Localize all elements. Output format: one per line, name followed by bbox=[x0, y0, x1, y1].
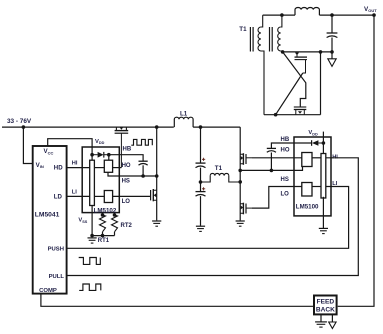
wire input rail bbox=[2, 126, 174, 128]
ground feedback bbox=[315, 322, 327, 327]
pin label PULL bbox=[49, 274, 65, 280]
capacitor C3 (+) bbox=[196, 187, 206, 196]
wire sgnd stub output bbox=[331, 52, 333, 59]
wire VIN drop bbox=[23, 127, 32, 163]
gate driver box high (LM5102) bbox=[104, 160, 112, 172]
wire high driver to level-shift bbox=[312, 157, 321, 159]
wire level-shift to high driver bbox=[94, 167, 104, 169]
wire cathode to driver bbox=[108, 155, 110, 161]
node sync right top bbox=[319, 50, 323, 54]
node buck output junction bbox=[199, 125, 203, 129]
node winding B top bbox=[280, 13, 284, 17]
svg-text:HB: HB bbox=[123, 147, 132, 153]
pin label HS (LM5102) bbox=[122, 179, 130, 185]
controller U1 LM5041 box bbox=[33, 146, 67, 294]
node RT2 top bbox=[113, 213, 117, 217]
node winding B bottom bbox=[281, 50, 285, 54]
svg-text:RT2: RT2 bbox=[121, 223, 133, 229]
inductor L2 output bbox=[295, 7, 319, 15]
pin label LD bbox=[54, 193, 63, 200]
transformer T1 primary winding bbox=[201, 165, 241, 182]
wire VCC to VDD bus bbox=[48, 139, 92, 161]
svg-text:HO: HO bbox=[122, 163, 131, 169]
gate driver box low (LM5100) bbox=[302, 183, 312, 197]
svg-text:LM5102: LM5102 bbox=[94, 207, 117, 214]
ground cap column bbox=[196, 226, 205, 231]
node HS switch bbox=[155, 174, 159, 178]
net label LI bbox=[72, 189, 77, 195]
svg-text:LO: LO bbox=[122, 199, 131, 205]
svg-text:LO: LO bbox=[281, 192, 290, 198]
wire cross-couple B bbox=[276, 73, 303, 115]
driver U2 LM5102 box bbox=[82, 147, 119, 213]
secondary winding A bbox=[258, 15, 264, 115]
wire LM5100 ground stub bbox=[322, 197, 324, 228]
wire output cap lower bbox=[331, 38, 333, 52]
part name LM5041 bbox=[35, 212, 60, 219]
net label LI (LM5100) bbox=[332, 181, 337, 187]
node RT1 bottom bbox=[101, 234, 105, 238]
svg-text:T1: T1 bbox=[239, 26, 247, 33]
svg-text:COMP: COMP bbox=[39, 288, 57, 294]
svg-text:HI: HI bbox=[72, 161, 78, 167]
transformer core bars right bbox=[270, 27, 273, 52]
svg-text:PUSH: PUSH bbox=[48, 246, 64, 252]
part name LM5100 bbox=[296, 204, 319, 211]
ground push-pull column bbox=[236, 221, 245, 226]
wire HI to PULL bbox=[67, 158, 359, 276]
bootstrap diode D2 bbox=[312, 140, 324, 146]
ground VSS bbox=[88, 238, 97, 243]
wire sync top line bbox=[283, 51, 332, 53]
label T1 secondary bbox=[239, 26, 247, 33]
gate driver box low (LM5102) bbox=[104, 191, 112, 203]
svg-text:T1: T1 bbox=[215, 165, 223, 172]
wire LO to gate bbox=[113, 195, 151, 197]
svg-text:PULL: PULL bbox=[49, 274, 65, 280]
capacitor C5 output bbox=[327, 33, 338, 38]
signal ground output bbox=[328, 59, 336, 67]
wire LD-LI bbox=[67, 195, 90, 197]
capacitor bootstrap C1 bbox=[139, 161, 148, 165]
wire C1 to HS bbox=[142, 165, 144, 176]
bootstrap diode D1 bbox=[92, 152, 109, 158]
resistor RT2 bbox=[112, 213, 118, 236]
node VSS bbox=[90, 234, 94, 238]
pin label HB (LM5102) bbox=[123, 147, 132, 153]
wire C4 to HS bbox=[270, 153, 272, 171]
net label HI (LM5100) bbox=[332, 155, 338, 161]
wire HS (LM5100) bbox=[240, 167, 302, 171]
wire LI to PUSH bbox=[67, 187, 349, 249]
transistor Q3 push-pull high FET bbox=[240, 153, 252, 165]
wire HD-HI bbox=[67, 167, 90, 169]
svg-text:LM5100: LM5100 bbox=[296, 204, 319, 211]
pin label VIN bbox=[36, 162, 44, 169]
wire HB bbox=[109, 155, 143, 162]
net label VDD (LM5100) bbox=[308, 130, 318, 136]
wire RT bottom bus bbox=[92, 235, 114, 237]
wire output rail bbox=[319, 14, 374, 16]
transistor Q1 buck high-side FET bbox=[115, 127, 129, 168]
wire cross-couple A bbox=[283, 52, 306, 107]
wire feedback sgnd stub bbox=[331, 315, 333, 322]
wire COMP to feedback bbox=[41, 294, 314, 307]
wire output cap upper bbox=[331, 15, 333, 33]
transistor Q5 sync FET upper bbox=[295, 52, 308, 73]
pin label HD bbox=[54, 165, 63, 172]
transistor Q2 buck sync FET bbox=[151, 189, 157, 201]
pin label HO (LM5102) bbox=[122, 163, 131, 169]
node sync bottom bbox=[274, 113, 278, 117]
wire VDD stub (LM5100) bbox=[322, 132, 324, 154]
wire feedback ground stub bbox=[320, 315, 322, 322]
pin label PUSH bbox=[48, 246, 64, 252]
wire secondary top rail bbox=[263, 14, 295, 16]
node C1-HS bbox=[141, 174, 145, 178]
net label HI bbox=[72, 161, 78, 167]
node switch junction bbox=[155, 125, 159, 129]
wire VSS stub bbox=[91, 206, 93, 236]
wire HB (LM5100) bbox=[271, 143, 311, 148]
transformer core bars left bbox=[250, 27, 253, 52]
svg-text:LM5041: LM5041 bbox=[35, 212, 60, 219]
node output cap bottom bbox=[330, 50, 334, 54]
node T1 return junction bbox=[238, 180, 242, 184]
wire sync bottom line bbox=[264, 114, 321, 116]
label RT2 bbox=[121, 223, 133, 229]
wire level-shift to low driver bbox=[94, 195, 104, 197]
svg-text:L1: L1 bbox=[180, 111, 188, 118]
wire cap column lower bbox=[200, 196, 202, 226]
svg-text:HS: HS bbox=[281, 177, 289, 183]
label RT1 bbox=[98, 238, 110, 244]
wire switch column bbox=[156, 127, 158, 220]
wire feedback to Vout bbox=[338, 15, 374, 306]
waveform glyph PULL bbox=[79, 284, 101, 290]
transistor Q4 push-pull low FET bbox=[240, 203, 252, 215]
driver U3 LM5100 box bbox=[294, 137, 331, 216]
waveform glyph HI bbox=[131, 139, 152, 145]
svg-text:HB: HB bbox=[281, 137, 290, 143]
node VDD-diode anode bbox=[90, 153, 94, 157]
node Vout bbox=[372, 13, 376, 17]
wire cap column upper bbox=[200, 127, 202, 163]
ground LM5100 bbox=[319, 228, 328, 233]
feedback block bbox=[314, 296, 337, 315]
wire sync right vert bbox=[320, 52, 322, 115]
wire cap column middle bbox=[200, 168, 202, 192]
gate driver box high (LM5100) bbox=[302, 153, 312, 167]
node output cap top bbox=[330, 13, 334, 17]
resistor RT1 bbox=[100, 213, 106, 236]
svg-text:FEED: FEED bbox=[317, 299, 335, 306]
capacitor bootstrap C4 bbox=[267, 148, 276, 152]
signal ground feedback bbox=[329, 322, 336, 329]
pin label COMP bbox=[39, 288, 57, 294]
secondary winding B bbox=[278, 15, 283, 52]
node HS100 junction bbox=[238, 169, 242, 173]
pin label VCC bbox=[44, 148, 54, 155]
pin label HS (LM5100) bbox=[281, 177, 289, 183]
wire HO to gate bbox=[113, 167, 122, 169]
svg-text:LD: LD bbox=[54, 193, 63, 200]
net label VDD (LM5102) bbox=[95, 139, 105, 145]
node cap column junction bbox=[199, 180, 203, 184]
pin label LO (LM5102) bbox=[122, 199, 131, 205]
wire buck output rail bbox=[193, 126, 240, 128]
waveform glyph PUSH bbox=[79, 258, 101, 265]
node VDD-diode (LM5100) bbox=[322, 141, 326, 145]
inductor L1 bbox=[174, 111, 193, 128]
node HS cap junction bbox=[270, 169, 274, 173]
node diode cathode / HB bbox=[107, 153, 111, 157]
svg-text:HS: HS bbox=[122, 179, 130, 185]
wire push-pull column bbox=[239, 127, 241, 220]
svg-text:HD: HD bbox=[54, 165, 63, 172]
svg-text:LI: LI bbox=[72, 189, 77, 195]
wire HS bbox=[108, 172, 157, 176]
net label VSS bbox=[78, 218, 87, 224]
pin label HB (LM5100) bbox=[281, 137, 290, 143]
net label 33 - 76V bbox=[7, 118, 32, 125]
transistor Q6 sync FET lower bbox=[294, 107, 307, 115]
svg-text:BACK: BACK bbox=[316, 307, 335, 314]
wire LO (LM5100) bbox=[252, 187, 302, 209]
pin label HO (LM5100) bbox=[281, 148, 290, 154]
wire low driver to level-shift bbox=[312, 186, 321, 188]
node input junction bbox=[22, 125, 26, 129]
ground buck sync FET bbox=[152, 221, 161, 226]
svg-text:HO: HO bbox=[281, 148, 290, 154]
svg-text:RT1: RT1 bbox=[98, 238, 110, 244]
net label VOUT bbox=[364, 6, 377, 13]
pin label LO (LM5100) bbox=[281, 192, 290, 198]
node RT1 top bbox=[101, 213, 105, 217]
wire HO (LM5100) bbox=[252, 157, 302, 159]
svg-text:33 - 76V: 33 - 76V bbox=[7, 118, 32, 125]
level-shift bar (LM5102) bbox=[90, 160, 95, 205]
capacitor C2 (+) bbox=[196, 158, 206, 168]
part name LM5102 bbox=[94, 207, 117, 214]
level-shift bar (LM5100) bbox=[321, 154, 326, 199]
